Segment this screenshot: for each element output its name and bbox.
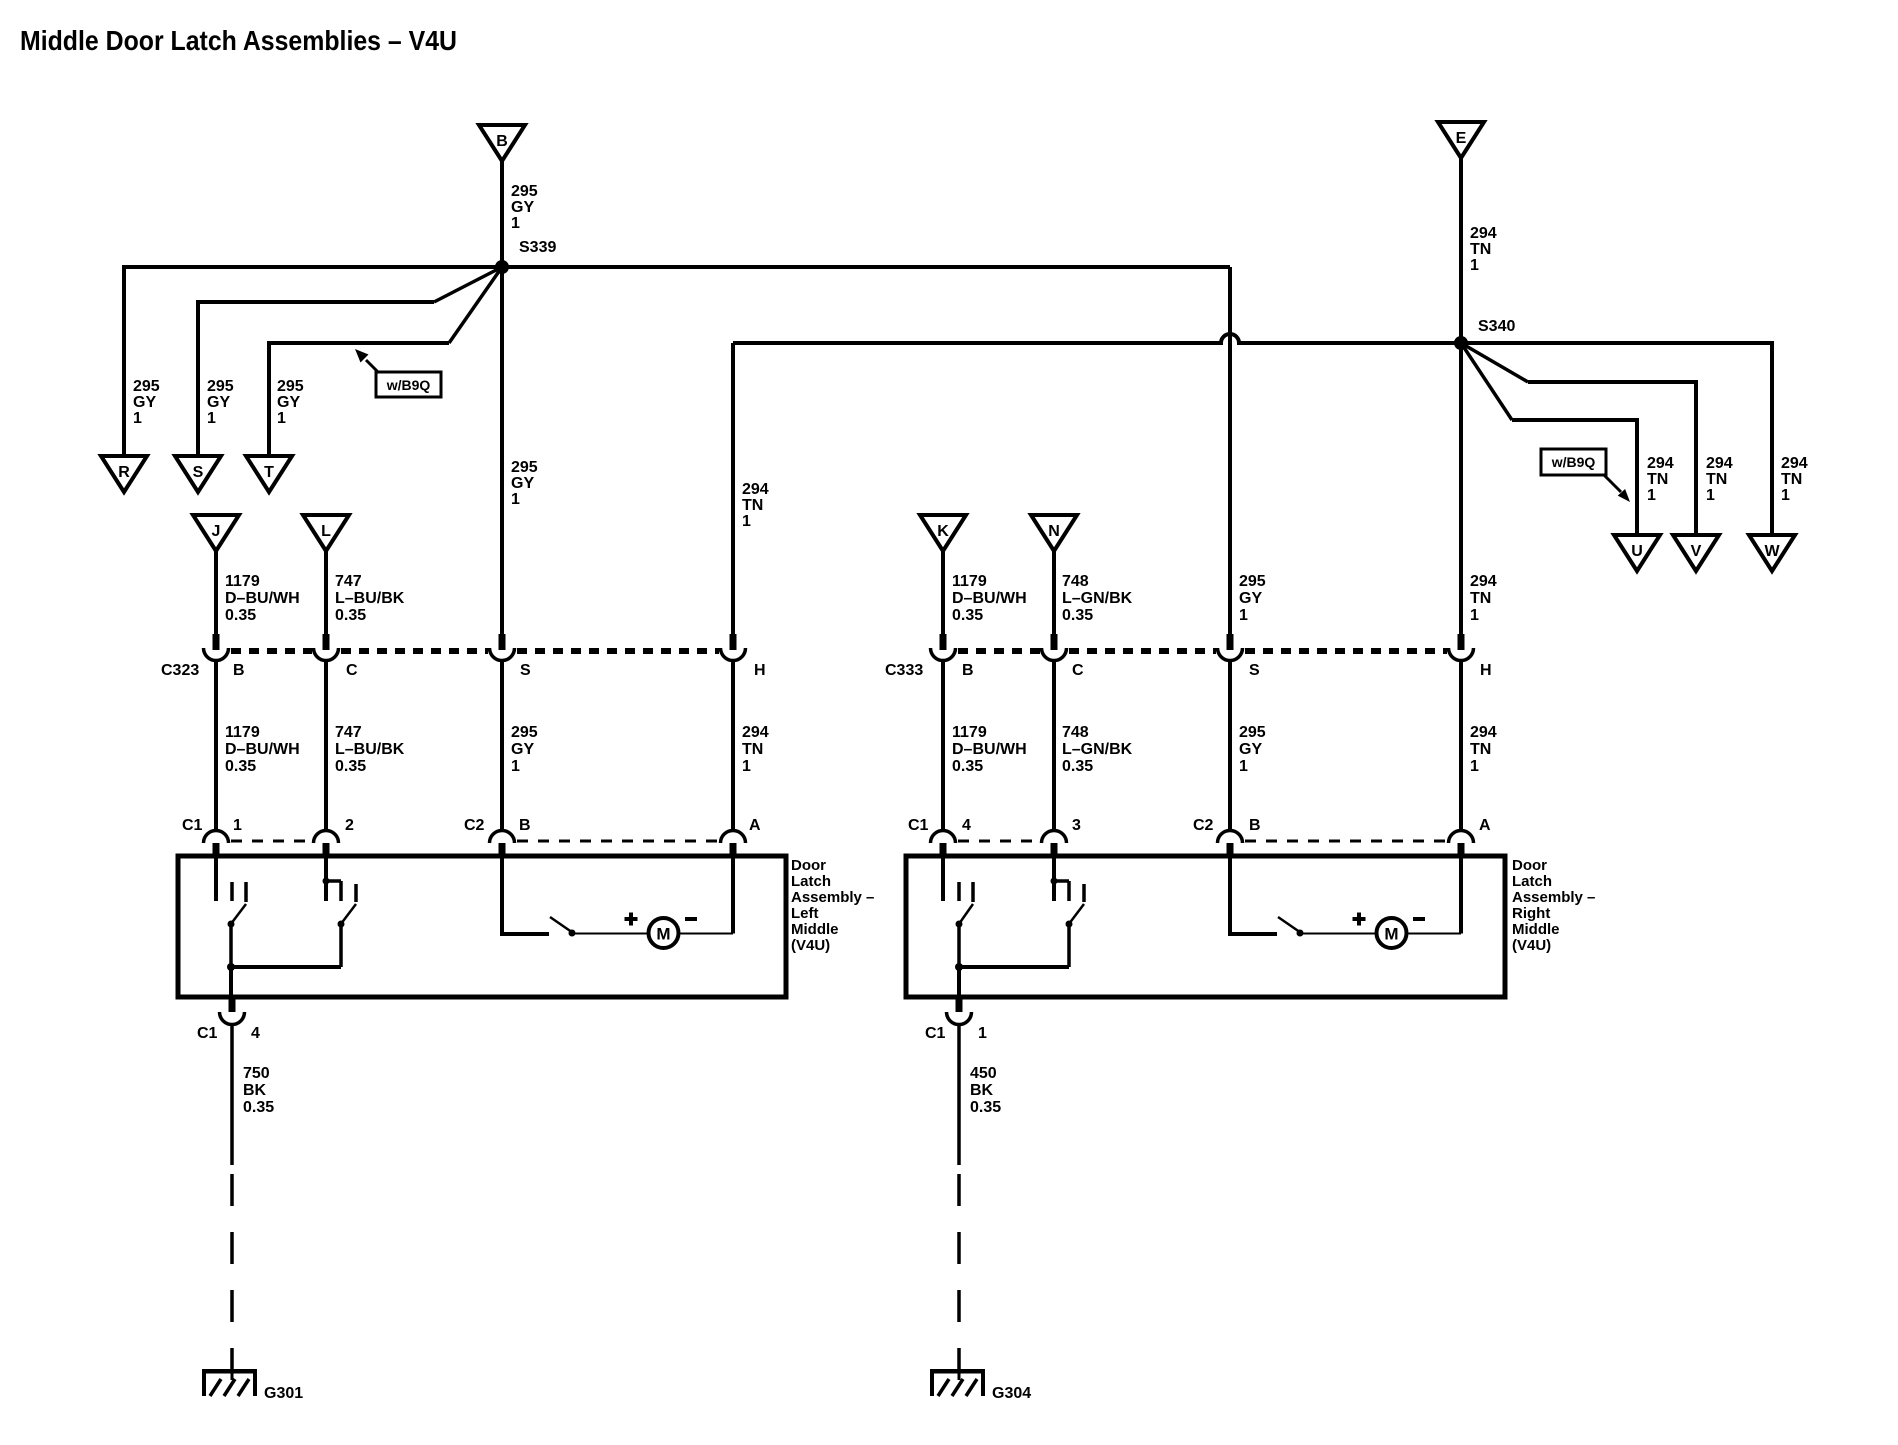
svg-text:C2: C2 xyxy=(464,817,485,834)
svg-text:1: 1 xyxy=(233,817,242,834)
wire motor - to latch A-pin xyxy=(1407,856,1462,934)
off-page connector L (triangle) xyxy=(303,515,349,551)
wire C333 S to C2 pin B xyxy=(1228,661,1232,831)
C333 dashed connector line B-C xyxy=(958,648,1040,654)
connector C323 pin B terminal xyxy=(203,634,228,661)
C1 dashed connector line 4-3 xyxy=(958,840,1040,843)
latch switch 2 pole wire xyxy=(1067,924,1071,967)
splice S340 junction dot xyxy=(1454,336,1468,350)
connector C1 pin 1 terminal xyxy=(203,830,228,858)
wire drop to R xyxy=(122,265,126,456)
wire C333 H to C2 pin A xyxy=(1459,661,1463,831)
wire latch B-pin to motor switch xyxy=(500,856,549,934)
off-page connector R (triangle) xyxy=(101,456,147,492)
off-page connector S (triangle) xyxy=(175,456,221,492)
wire motor - to latch A-pin xyxy=(679,856,734,934)
wire K to C333 pin B xyxy=(941,551,945,637)
off-page connector T (triangle) xyxy=(246,456,292,492)
svg-text:C1: C1 xyxy=(925,1025,946,1042)
connector C2 pin A terminal xyxy=(721,830,746,858)
svg-text:C1: C1 xyxy=(908,817,929,834)
wire 450 BK dashed segment xyxy=(957,1174,961,1369)
svg-text:B: B xyxy=(519,817,531,834)
latch switch 2 fixed contacts xyxy=(1051,856,1085,902)
wire C323 B to C1 pin 1 xyxy=(214,661,218,831)
connector C2 pin A terminal (right) xyxy=(1449,830,1474,858)
svg-text:4: 4 xyxy=(251,1025,260,1042)
connector C333 pin H terminal xyxy=(1449,634,1474,661)
wire S339 branch to T xyxy=(269,267,502,456)
connector C333 pin B terminal xyxy=(931,634,956,661)
off-page connector W (triangle) xyxy=(1749,535,1795,571)
C2 dashed connector line B-A xyxy=(517,840,719,843)
svg-text:S340: S340 xyxy=(1478,318,1515,335)
wire S339 bus to right drop xyxy=(124,265,1230,269)
wire C333 C to C1 pin 3 xyxy=(1052,661,1056,831)
C323 dashed connector line S-H xyxy=(517,648,719,654)
motor M xyxy=(1377,918,1407,948)
svg-text:A: A xyxy=(1479,817,1491,834)
label - polarity xyxy=(1413,917,1425,921)
svg-text:M: M xyxy=(656,925,670,944)
svg-text:S: S xyxy=(1249,662,1260,679)
motor M xyxy=(649,918,679,948)
svg-text:4: 4 xyxy=(962,817,971,834)
latch switch 2 fixed contacts xyxy=(323,856,357,902)
wire latch output to C1 pin 4 xyxy=(229,967,233,998)
wire 450 BK solid segment xyxy=(957,1024,961,1165)
off-page connector U (triangle) xyxy=(1614,535,1660,571)
latch switch 1 pole wire xyxy=(957,924,961,967)
svg-text:L: L xyxy=(321,523,331,540)
C323 dashed connector line B-C xyxy=(231,648,312,654)
svg-text:E: E xyxy=(1456,130,1467,147)
off-page connector B (triangle) xyxy=(479,125,525,161)
callout w/B9Q with arrow (right) xyxy=(1541,449,1630,502)
wire L to C323 pin C xyxy=(324,551,328,637)
wire switch to motor + xyxy=(572,933,649,935)
svg-text:H: H xyxy=(754,662,766,679)
svg-text:S339: S339 xyxy=(519,239,556,256)
wire S339 branch to S xyxy=(198,267,502,456)
off-page connector E (triangle) xyxy=(1438,122,1484,158)
wire joining poles xyxy=(231,965,341,969)
svg-text:C: C xyxy=(346,662,358,679)
connector C2 pin B terminal (right) xyxy=(1218,830,1243,858)
svg-text:B: B xyxy=(233,662,245,679)
svg-text:V: V xyxy=(1691,543,1702,560)
wire S340 bus left end down to C323 pin H xyxy=(731,343,735,637)
svg-text:H: H xyxy=(1480,662,1492,679)
svg-text:w/B9Q: w/B9Q xyxy=(386,377,431,393)
junction of switch poles xyxy=(955,963,963,971)
wire latch output to C1 pin 1 xyxy=(957,967,961,998)
latch switch 1 pole wire xyxy=(229,924,233,967)
svg-text:A: A xyxy=(749,817,761,834)
latch switch 1 fixed contacts xyxy=(943,856,973,902)
C323 dashed connector line C-S xyxy=(341,648,488,654)
connector C1 pin 3 terminal xyxy=(1042,830,1067,858)
ground G304 xyxy=(930,1365,1031,1402)
wire latch B-pin to motor switch xyxy=(1228,856,1277,934)
svg-text:G301: G301 xyxy=(264,1385,303,1402)
svg-text:C333: C333 xyxy=(885,662,923,679)
latch switch 1 fixed contacts xyxy=(216,856,246,902)
connector C1 pin 4 terminal (below latch) xyxy=(220,997,245,1025)
connector C333 pin S terminal xyxy=(1218,634,1243,661)
wire 295 GY from B to splice S339 xyxy=(500,161,504,267)
wire S340 bus with hop over S339 drop xyxy=(733,334,1772,343)
latch switch 2 pole wire xyxy=(339,924,343,967)
svg-text:C1: C1 xyxy=(197,1025,218,1042)
splice S339 junction dot xyxy=(495,260,509,274)
wire N to C333 pin C xyxy=(1052,551,1056,637)
svg-text:C323: C323 xyxy=(161,662,199,679)
svg-text:S: S xyxy=(193,464,204,481)
svg-text:w/B9Q: w/B9Q xyxy=(1551,454,1596,470)
C333 dashed connector line C-S xyxy=(1069,648,1216,654)
connector C2 pin B terminal xyxy=(490,830,515,858)
junction of switch poles xyxy=(227,963,235,971)
svg-text:J: J xyxy=(212,523,221,540)
svg-text:B: B xyxy=(1249,817,1261,834)
wire J to C323 pin B xyxy=(214,551,218,637)
wire joining poles xyxy=(959,965,1069,969)
wire S340 branch to U xyxy=(1461,343,1637,535)
label - polarity xyxy=(685,917,697,921)
svg-text:K: K xyxy=(937,523,949,540)
connector C323 pin H terminal xyxy=(721,634,746,661)
wire switch to motor + xyxy=(1300,933,1377,935)
off-page connector V (triangle) xyxy=(1673,535,1719,571)
svg-text:B: B xyxy=(496,133,508,150)
connector C333 pin C terminal xyxy=(1042,634,1067,661)
wire C323 H to C2 pin A xyxy=(731,661,735,831)
wire S340 to W drop xyxy=(1770,341,1774,535)
connector C1 pin 1 terminal (below latch) xyxy=(947,997,972,1025)
latch switch 1 blade xyxy=(956,904,974,928)
svg-text:Middle Door Latch Assemblies –: Middle Door Latch Assemblies – V4U xyxy=(20,25,457,56)
label + polarity xyxy=(625,913,638,926)
svg-text:R: R xyxy=(118,464,130,481)
motor switch (open) xyxy=(550,917,576,937)
svg-text:G304: G304 xyxy=(992,1385,1031,1402)
door latch assembly right box xyxy=(906,856,1505,997)
wire 294 TN from E to splice S340 xyxy=(1459,158,1463,343)
off-page connector J (triangle) xyxy=(193,515,239,551)
C333 dashed connector line S-H xyxy=(1245,648,1447,654)
svg-text:U: U xyxy=(1631,543,1643,560)
connector C323 pin S terminal xyxy=(490,634,515,661)
svg-text:C1: C1 xyxy=(182,817,203,834)
svg-text:W: W xyxy=(1764,543,1780,560)
connector C323 pin C terminal xyxy=(314,634,339,661)
wire S340 down to C333 pin H xyxy=(1459,343,1463,637)
door latch assembly left box xyxy=(178,856,786,997)
C1 dashed connector line 1-2 xyxy=(231,840,312,843)
svg-text:2: 2 xyxy=(345,817,354,834)
label + polarity xyxy=(1353,913,1366,926)
motor switch (open) xyxy=(1278,917,1304,937)
wire S339 bus drop to C333 pin S xyxy=(1228,267,1232,637)
svg-text:S: S xyxy=(520,662,531,679)
svg-text:T: T xyxy=(264,464,274,481)
wire 750 BK solid segment xyxy=(230,1024,234,1165)
connector C1 pin 2 terminal xyxy=(314,830,339,858)
off-page connector K (triangle) xyxy=(920,515,966,551)
latch switch 2 blade xyxy=(338,904,357,928)
svg-text:B: B xyxy=(962,662,974,679)
callout w/B9Q with arrow (left) xyxy=(355,349,441,397)
wire C323 C to C1 pin 2 xyxy=(324,661,328,831)
svg-text:C2: C2 xyxy=(1193,817,1214,834)
wire S340 branch to V xyxy=(1461,343,1696,535)
wire C323 S to C2 pin B xyxy=(500,661,504,831)
connector C1 pin 4 terminal (latch right) xyxy=(931,830,956,858)
svg-text:3: 3 xyxy=(1072,817,1081,834)
C2 dashed connector line B-A (right) xyxy=(1245,840,1447,843)
svg-text:N: N xyxy=(1048,523,1060,540)
ground G301 xyxy=(202,1365,303,1402)
svg-text:M: M xyxy=(1384,925,1398,944)
wire C333 B to C1 pin 4 xyxy=(941,661,945,831)
off-page connector N (triangle) xyxy=(1031,515,1077,551)
wire S339 down to C323 pin S xyxy=(500,267,504,637)
latch switch 2 blade xyxy=(1066,904,1085,928)
svg-text:1: 1 xyxy=(978,1025,987,1042)
wire 750 BK dashed segment xyxy=(230,1174,234,1369)
svg-text:C: C xyxy=(1072,662,1084,679)
latch switch 1 blade xyxy=(228,904,247,928)
